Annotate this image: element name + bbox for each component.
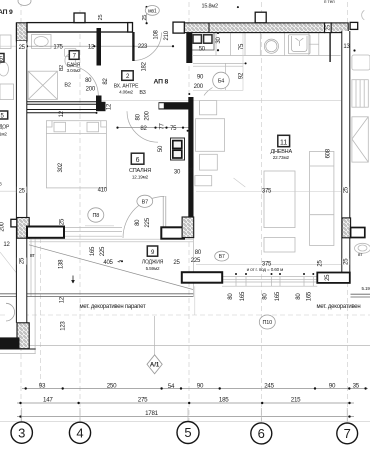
left exterior wall (double line) bbox=[16, 23, 26, 323]
dim 25 rot left wall low bbox=[17, 257, 27, 265]
svg-text:200: 200 bbox=[0, 221, 6, 231]
svg-text:75: 75 bbox=[239, 43, 245, 50]
loggia west outer edge bbox=[31, 238, 35, 354]
svg-text:25: 25 bbox=[19, 45, 26, 51]
entrance box 2 bbox=[122, 71, 133, 81]
tv cabinet along east wall bbox=[310, 151, 334, 245]
kitchen stove burner squares bbox=[193, 35, 212, 43]
svg-text:25: 25 bbox=[60, 218, 66, 225]
svg-text:185: 185 bbox=[219, 397, 229, 404]
svg-text:90: 90 bbox=[329, 382, 336, 389]
bump above band right end bbox=[350, 22, 358, 29]
svg-text:12: 12 bbox=[88, 45, 95, 51]
svg-text:405: 405 bbox=[103, 260, 113, 266]
hatched column left mid bbox=[17, 218, 29, 239]
AP9 fixtures left of wall bbox=[0, 35, 14, 100]
kitchen counter outline bbox=[193, 33, 341, 56]
svg-text:200: 200 bbox=[86, 87, 96, 93]
small box on left wall bbox=[11, 219, 17, 227]
top hatched band (kitchen north wall) left part bbox=[184, 23, 324, 33]
living box 11 bbox=[278, 135, 290, 146]
bedroom door arc bbox=[127, 111, 158, 142]
window band tick dots bbox=[235, 273, 314, 275]
parapet lines right side bbox=[351, 294, 370, 297]
svg-text:25: 25 bbox=[98, 15, 104, 21]
svg-text:АП 8: АП 8 bbox=[154, 79, 169, 86]
svg-text:мв1: мв1 bbox=[148, 8, 157, 14]
auxiliary dashed line x=40.6 bbox=[40, 238, 42, 388]
svg-text:90: 90 bbox=[197, 74, 204, 80]
svg-text:54: 54 bbox=[168, 383, 175, 390]
bedroom north wall east segment bbox=[159, 102, 189, 109]
svg-text:В7: В7 bbox=[219, 254, 225, 260]
dark divider line kitchen x=330 bbox=[329, 33, 331, 62]
svg-text:4.06м2: 4.06м2 bbox=[119, 90, 133, 95]
Б4 ellipse bbox=[213, 72, 230, 89]
dim row2 dots bbox=[19, 402, 350, 404]
projection line y=90.3 kitchen bbox=[193, 89, 243, 91]
svg-text:В3: В3 bbox=[139, 90, 145, 96]
svg-text:35: 35 bbox=[353, 383, 360, 390]
svg-text:25: 25 bbox=[20, 257, 26, 264]
top-left wall (AP9 bath north) bbox=[27, 23, 132, 32]
svg-text:1781: 1781 bbox=[145, 410, 159, 417]
svg-text:215: 215 bbox=[291, 397, 301, 404]
svg-text:5.59м2: 5.59м2 bbox=[146, 266, 160, 271]
dining table bbox=[264, 171, 295, 228]
solid wall bar bottom-left bbox=[0, 337, 20, 348]
В7 ellipse living bbox=[215, 251, 229, 261]
neighbour wardrobe bbox=[352, 80, 368, 108]
25 gap in band bbox=[325, 23, 332, 33]
parapet lines left loggia bbox=[0, 294, 193, 297]
grid axis 7 dashed vertical bbox=[347, 2, 349, 421]
svg-text:мет. декоративен: мет. декоративен bbox=[317, 304, 361, 310]
svg-text:6: 6 bbox=[136, 157, 140, 164]
band divider line bbox=[208, 23, 210, 33]
entrance door leaf bbox=[132, 32, 134, 61]
svg-text:245: 245 bbox=[264, 382, 274, 389]
wall end cap bbox=[128, 23, 133, 32]
bathroom washbasin bbox=[32, 35, 52, 49]
svg-text:608: 608 bbox=[325, 148, 331, 158]
dim vertical near entrance x=146.6 bbox=[146, 7, 148, 23]
oven door swing bbox=[204, 88, 213, 96]
svg-text:В7: В7 bbox=[142, 199, 148, 205]
svg-text:93: 93 bbox=[39, 382, 46, 389]
svg-text:5: 5 bbox=[184, 425, 191, 440]
svg-text:77: 77 bbox=[160, 123, 166, 130]
mv1 ellipse bbox=[145, 5, 159, 15]
bottom-left base lines bbox=[0, 348, 36, 350]
svg-text:25: 25 bbox=[142, 15, 148, 21]
svg-text:11: 11 bbox=[280, 139, 287, 146]
plant diagonal hint bbox=[234, 178, 246, 187]
dim dots doors row bbox=[116, 127, 184, 129]
shaft outer box bbox=[171, 138, 185, 160]
svg-text:165: 165 bbox=[90, 246, 96, 256]
neighbour washbasin bbox=[355, 243, 370, 253]
svg-text:ЛОДЖИЯ: ЛОДЖИЯ bbox=[142, 259, 164, 265]
right exterior wall (double line) bbox=[342, 31, 350, 273]
oven cabinet below stove bbox=[193, 63, 246, 90]
bedroom bed bbox=[46, 121, 106, 188]
entrance east wall upper (kitchen side) bbox=[186, 33, 192, 63]
A/1 diamond bbox=[147, 355, 162, 374]
entrance door arc AP8 bbox=[134, 33, 162, 61]
svg-text:82: 82 bbox=[103, 78, 109, 85]
loggia door arc bbox=[123, 197, 165, 239]
neighbour top cupboard bbox=[352, 55, 370, 70]
svg-text:30: 30 bbox=[216, 37, 222, 44]
svg-text:410: 410 bbox=[98, 187, 108, 193]
bedroom south wall west segment bbox=[27, 227, 64, 238]
living south wall west block bbox=[182, 272, 222, 283]
hatched column top-left bbox=[16, 23, 27, 41]
slope arrow bbox=[72, 276, 74, 284]
half box label left edge bbox=[0, 54, 4, 63]
svg-text:25: 25 bbox=[343, 258, 349, 265]
bedroom south window (3 lines) bbox=[64, 228, 122, 237]
dim row2 labels bbox=[43, 397, 301, 404]
svg-text:108: 108 bbox=[154, 29, 160, 39]
bathroom east wall lower bbox=[96, 96, 102, 105]
A/1 stem line bbox=[154, 316, 156, 356]
grid axis 3 dashed vertical bbox=[20, 2, 22, 421]
375 dim line low bbox=[196, 264, 341, 266]
projection line y=100.3 entrance bbox=[98, 99, 341, 101]
svg-text:165: 165 bbox=[240, 291, 246, 301]
light line above grid circles bbox=[0, 420, 370, 422]
projection vertical x=243 kitchen bbox=[242, 32, 244, 91]
dim dots bath row bbox=[26, 45, 174, 47]
corridor box 5 (cut) bbox=[0, 111, 8, 120]
grid circle 4 bbox=[69, 422, 90, 443]
svg-text:80: 80 bbox=[228, 293, 234, 300]
loggia box 9 bbox=[147, 246, 157, 256]
svg-text:12: 12 bbox=[3, 242, 10, 248]
hatched column at loggia door bbox=[182, 217, 194, 238]
svg-text:275: 275 bbox=[138, 397, 148, 404]
svg-text:А/1: А/1 bbox=[150, 363, 160, 369]
AP9 corner diagonal in balcony bbox=[0, 252, 22, 280]
svg-text:90: 90 bbox=[197, 382, 204, 389]
bathroom door swing arc bbox=[69, 66, 99, 96]
corridor wall block bbox=[96, 102, 106, 111]
dim extension left edge y=191 bbox=[0, 190, 16, 192]
svg-text:Б4: Б4 bbox=[218, 79, 224, 85]
svg-text:165: 165 bbox=[275, 291, 281, 301]
grid axis 4 dashed vertical bbox=[79, 10, 81, 421]
svg-text:АП 9: АП 9 bbox=[0, 9, 13, 16]
horizontal dashed reference line y=315 bbox=[0, 314, 370, 316]
svg-text:25: 25 bbox=[326, 25, 332, 31]
dim row bedroom doors y=127.6 bbox=[117, 127, 189, 129]
loggia east edge bbox=[192, 238, 194, 297]
svg-text:225: 225 bbox=[145, 217, 151, 227]
dim row3 line bbox=[17, 416, 354, 418]
svg-text:80: 80 bbox=[263, 293, 269, 300]
svg-text:3.04м2: 3.04м2 bbox=[67, 68, 81, 73]
bathroom east wall upper bbox=[97, 28, 102, 66]
bedroom north wall thin pair bbox=[27, 110, 96, 113]
dim row1 dots bbox=[25, 387, 367, 389]
В7 ellipse bedroom bbox=[137, 195, 153, 207]
dim 25 in left wall mid bbox=[17, 187, 27, 195]
svg-text:25: 25 bbox=[325, 274, 331, 281]
svg-text:СПАЛНЯ: СПАЛНЯ bbox=[129, 168, 151, 174]
svg-text:13: 13 bbox=[343, 44, 350, 50]
svg-text:80: 80 bbox=[85, 78, 92, 84]
kitchen sink bowls bbox=[264, 39, 278, 53]
grid circle 6 bbox=[251, 423, 272, 444]
dim row1 line bbox=[22, 388, 368, 390]
svg-text:80: 80 bbox=[296, 293, 302, 300]
svg-text:200: 200 bbox=[144, 110, 150, 120]
dim 25 in left wall top bbox=[17, 43, 27, 51]
windowsill line bedroom bbox=[85, 225, 114, 227]
grid circle 7 bbox=[337, 423, 358, 444]
svg-text:225: 225 bbox=[191, 258, 201, 264]
svg-text:3: 3 bbox=[18, 425, 25, 440]
svg-text:п тел: п тел bbox=[324, 0, 335, 4]
405 arrow tick bbox=[117, 260, 123, 263]
living west wall bbox=[188, 97, 193, 218]
svg-text:25: 25 bbox=[318, 260, 324, 267]
svg-text:223: 223 bbox=[138, 44, 148, 50]
dim extension left edge y=46 bbox=[0, 45, 16, 47]
dim 25 rot right wall mid bbox=[342, 186, 349, 193]
svg-text:165: 165 bbox=[307, 291, 313, 301]
shaft inner risers bbox=[173, 141, 182, 158]
svg-text:П8: П8 bbox=[92, 213, 99, 219]
pilaster bump top-left bbox=[74, 13, 85, 23]
kitchen stove outer bbox=[191, 33, 215, 51]
svg-text:4.21м2: 4.21м2 bbox=[0, 131, 7, 136]
svg-text:КОРИДОР: КОРИДОР bbox=[0, 125, 10, 131]
living sofa seat 3 bbox=[195, 176, 212, 186]
hatched column right wall bbox=[342, 218, 351, 238]
dim row bath y=46 bbox=[27, 45, 173, 47]
375 dim line mid bbox=[196, 191, 341, 193]
svg-text:75: 75 bbox=[170, 126, 177, 132]
svg-text:25: 25 bbox=[19, 188, 26, 194]
svg-text:Б: Б bbox=[0, 56, 3, 62]
svg-text:80: 80 bbox=[135, 219, 141, 226]
svg-text:250: 250 bbox=[107, 382, 117, 389]
bathroom south wall thin pair bbox=[27, 102, 100, 105]
svg-text:22.73м2: 22.73м2 bbox=[273, 155, 290, 160]
svg-text:302: 302 bbox=[58, 162, 64, 172]
svg-text:50: 50 bbox=[158, 145, 164, 152]
bathroom shower tray with X bbox=[28, 71, 57, 99]
grid axis 5 dashed vertical bbox=[188, 2, 190, 421]
grid circle 5 bbox=[177, 422, 199, 444]
hatched column bottom-left bbox=[17, 323, 29, 349]
svg-text:182: 182 bbox=[142, 61, 148, 71]
svg-text:мет. декоративен парапет: мет. декоративен парапет bbox=[79, 304, 146, 310]
svg-text:200: 200 bbox=[194, 84, 204, 90]
svg-text:25: 25 bbox=[173, 260, 180, 266]
svg-text:123: 123 bbox=[61, 321, 67, 331]
living sofa big element bbox=[196, 119, 225, 152]
svg-text:6: 6 bbox=[258, 426, 265, 441]
living south window band lines bbox=[222, 277, 317, 287]
dim row1 labels bbox=[39, 382, 360, 390]
svg-text:В2: В2 bbox=[59, 65, 65, 71]
svg-text:7: 7 bbox=[344, 426, 351, 441]
svg-text:и от г. под = 0.60 м: и от г. под = 0.60 м bbox=[247, 267, 284, 272]
svg-text:375: 375 bbox=[262, 188, 272, 194]
svg-text:175: 175 bbox=[53, 45, 63, 51]
svg-text:50: 50 bbox=[199, 47, 206, 53]
svg-text:4: 4 bbox=[76, 426, 83, 441]
svg-text:138: 138 bbox=[59, 259, 65, 269]
dim row2 line bbox=[17, 402, 354, 404]
living sofa seat 2 bbox=[200, 154, 218, 170]
svg-text:12: 12 bbox=[60, 296, 66, 303]
svg-text:12: 12 bbox=[107, 103, 113, 110]
svg-text:225: 225 bbox=[100, 246, 106, 256]
building lower outline y=345.4 bbox=[0, 344, 370, 346]
partial ellipse top-left bbox=[18, 0, 31, 6]
svg-text:15.8м2: 15.8м2 bbox=[202, 4, 218, 10]
dining chair block bbox=[264, 237, 295, 252]
grid axis 6 dashed vertical bbox=[261, 2, 263, 421]
bathroom box 7 bbox=[69, 51, 79, 60]
svg-text:5.19: 5.19 bbox=[362, 286, 370, 291]
bottom-left partial ellipse bbox=[6, 303, 15, 321]
dim 25 rot right wall low bbox=[342, 258, 349, 265]
bathroom toilet bbox=[65, 49, 77, 67]
axis stubs above circles bbox=[22, 408, 348, 422]
svg-text:П10: П10 bbox=[263, 320, 273, 326]
top hatched band right part bbox=[331, 23, 348, 33]
svg-text:92: 92 bbox=[239, 72, 245, 79]
box bump right wall bbox=[351, 228, 365, 238]
svg-text:30: 30 bbox=[174, 170, 181, 176]
living south wall east block bbox=[317, 273, 350, 283]
neighbour partial ellipse top right bbox=[362, 10, 365, 19]
svg-text:18: 18 bbox=[190, 167, 196, 174]
svg-text:210: 210 bbox=[164, 30, 170, 40]
loggia door leaf bbox=[163, 196, 166, 238]
П8 ellipse bbox=[88, 208, 104, 222]
svg-text:12: 12 bbox=[59, 110, 65, 117]
living window mullions bbox=[236, 277, 313, 287]
fridge bbox=[309, 33, 319, 55]
loggia slope diagonal bbox=[29, 245, 193, 290]
P10 drop line bbox=[194, 286, 196, 315]
pilaster bump above band mid bbox=[255, 12, 266, 23]
top wall white cap before hatch band bbox=[173, 22, 184, 33]
grid circle 3 bbox=[11, 422, 32, 443]
loggia top edge lines bbox=[29, 239, 193, 242]
svg-text:82: 82 bbox=[140, 126, 147, 132]
svg-text:12.19м2: 12.19м2 bbox=[132, 174, 149, 179]
П10 ellipse bbox=[259, 315, 275, 329]
svg-text:147: 147 bbox=[43, 397, 53, 404]
living corner sofa seat 1 bbox=[200, 101, 217, 115]
kitchen sink unit bbox=[289, 35, 311, 54]
loggia door south block bbox=[161, 227, 184, 238]
svg-text:80: 80 bbox=[136, 113, 142, 120]
misc tick dots bbox=[96, 6, 356, 262]
bedroom box 6 bbox=[131, 153, 144, 164]
dim row3 dots bbox=[19, 415, 350, 417]
svg-text:В2: В2 bbox=[64, 83, 70, 89]
svg-text:25: 25 bbox=[343, 186, 349, 193]
neighbour bed with X bbox=[352, 117, 368, 162]
svg-text:80: 80 bbox=[195, 250, 202, 256]
